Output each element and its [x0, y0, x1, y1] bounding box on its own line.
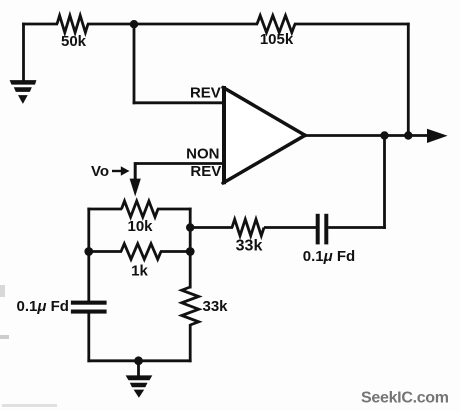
svg-text:10k: 10k — [127, 218, 153, 235]
svg-text:REV: REV — [190, 163, 221, 180]
label: NON REV (non-inverting input) — [186, 146, 221, 180]
label Vo with arrow — [91, 163, 130, 180]
node: output/105k junction — [404, 131, 412, 139]
svg-text:33k: 33k — [236, 238, 263, 255]
left rail of pot network — [87, 208, 90, 302]
node: 1k right junction — [186, 247, 195, 256]
bottom rail — [87, 359, 191, 362]
capacitor C2 0.1uFd (left, shunt) — [17, 298, 107, 315]
wire: non-inverting input horizontal — [135, 162, 225, 165]
svg-text:NON: NON — [186, 146, 219, 163]
potentiometer 10k — [87, 201, 191, 235]
svg-text:1k: 1k — [131, 263, 148, 280]
output arrow — [427, 129, 448, 143]
svg-text:33k: 33k — [203, 298, 229, 315]
svg-text:SeekIC.com: SeekIC.com — [361, 389, 449, 406]
svg-text:105k: 105k — [260, 31, 294, 48]
svg-text:0.1μ Fd: 0.1μ Fd — [303, 248, 355, 265]
wire: feedback vertical drop — [383, 136, 386, 229]
resistor R5 33k (to ground) — [182, 287, 228, 325]
resistor R3 33k (feedback) — [232, 219, 264, 254]
capacitor C1 0.1uFd (feedback) — [303, 214, 355, 265]
node: 1k left junction — [84, 247, 93, 256]
svg-text:REV: REV — [190, 84, 221, 101]
right rail lower — [189, 324, 192, 362]
node: feedback taps right rail — [186, 223, 194, 231]
wire: 105k to top-right corner down to output — [294, 23, 410, 136]
wire: capacitor to 33k resistor — [264, 226, 316, 229]
node: output/feedback junction — [380, 131, 388, 139]
wire: feedback horizontal right of capacitor — [328, 226, 386, 229]
svg-text:Vo: Vo — [91, 163, 109, 180]
right rail upper — [189, 208, 192, 289]
op-amp U1 — [223, 86, 305, 184]
resistor R1 50k — [57, 16, 88, 50]
resistor R2 105k — [257, 16, 295, 48]
wire: op-amp output — [302, 134, 429, 137]
wire: 33k to pot-network rail — [189, 226, 233, 229]
wiper arrow from NON REV wire down to pot 10k — [130, 162, 141, 196]
node: ground junction — [134, 356, 143, 365]
svg-text:0.1μ Fd: 0.1μ Fd — [17, 298, 69, 315]
wire: junction down then right to inverting input — [133, 24, 225, 104]
wire: top-left horizontal to R 50k — [22, 23, 58, 26]
node: top junction — [130, 20, 138, 28]
ground (top-left) — [10, 23, 37, 104]
svg-text:50k: 50k — [61, 33, 87, 50]
wire: 50k to 105k through junction — [87, 23, 258, 26]
ground (bottom) — [126, 361, 153, 398]
resistor R4 1k with rail junctions — [89, 244, 190, 280]
left rail below capacitor — [87, 313, 90, 363]
